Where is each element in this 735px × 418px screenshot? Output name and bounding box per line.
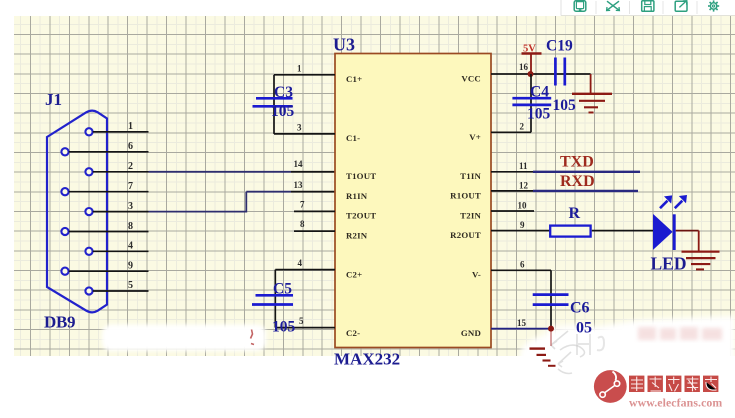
- svg-text:TXD: TXD: [560, 154, 594, 171]
- C19 value 105: [553, 97, 577, 114]
- capacitor C4: [512, 98, 551, 105]
- svg-text:5V: 5V: [523, 44, 536, 55]
- C6 value 05: [576, 320, 592, 337]
- ground symbol right of C19: [572, 94, 612, 113]
- svg-text:9: 9: [128, 261, 133, 272]
- svg-text:R2OUT: R2OUT: [450, 230, 481, 240]
- C3 value 105: [271, 103, 295, 120]
- TXD label: [560, 154, 594, 171]
- svg-text:4: 4: [298, 258, 303, 268]
- svg-text:MAX232: MAX232: [334, 350, 400, 369]
- pin13 number: [294, 180, 304, 190]
- svg-text:1: 1: [297, 64, 302, 74]
- J1 label: [45, 90, 62, 109]
- svg-text:C2-: C2-: [346, 328, 360, 338]
- svg-text:105: 105: [272, 319, 296, 336]
- svg-text:T1IN: T1IN: [460, 171, 481, 181]
- svg-text:105: 105: [553, 97, 577, 114]
- svg-text:5: 5: [128, 280, 133, 291]
- svg-text:3: 3: [128, 201, 133, 212]
- svg-text:GND: GND: [461, 328, 481, 338]
- svg-text:9: 9: [520, 220, 525, 230]
- J1 pin 4: [85, 248, 92, 255]
- svg-text:2: 2: [520, 122, 525, 132]
- J1 pin 3: [85, 208, 92, 215]
- wire U3 pin8 stub: [294, 219, 335, 231]
- svg-text:VCC: VCC: [461, 73, 481, 83]
- svg-text:12: 12: [519, 180, 529, 190]
- C5 value 105: [272, 319, 296, 336]
- svg-text:11: 11: [519, 161, 528, 171]
- wire GND pin15: [491, 318, 551, 329]
- pin14 number: [294, 159, 304, 169]
- C3 label: [274, 84, 293, 101]
- capacitor C3: [253, 98, 293, 106]
- svg-text:DB9: DB9: [44, 313, 75, 332]
- wire U3 pin3: [274, 123, 335, 134]
- C5 vertical wire: [274, 270, 276, 328]
- svg-text:C4: C4: [530, 84, 549, 101]
- wire R1OUT pin12 stub: [491, 180, 533, 191]
- svg-text:U3: U3: [333, 35, 355, 55]
- wire U3 pin1: [274, 64, 335, 75]
- svg-text:C3: C3: [274, 84, 293, 101]
- svg-text:6: 6: [128, 141, 133, 152]
- svg-text:105: 105: [271, 103, 295, 120]
- wire T1IN pin11 stub: [491, 161, 533, 172]
- svg-text:105: 105: [527, 106, 551, 123]
- svg-text:R1IN: R1IN: [346, 191, 368, 201]
- U3 pin names left: [346, 74, 376, 338]
- svg-text:RXD: RXD: [560, 173, 595, 190]
- svg-text:R2IN: R2IN: [346, 230, 368, 240]
- RXD label: [560, 173, 595, 190]
- wire R to LED: [592, 230, 654, 232]
- net RXD wire: [533, 190, 638, 192]
- C4 label: [530, 84, 549, 101]
- wire VCC pin16: [491, 62, 591, 74]
- wire pin3: [93, 201, 247, 212]
- C4 vertical wire: [530, 74, 532, 132]
- wire U3 pin4: [275, 258, 335, 270]
- wire pin5: [93, 280, 149, 291]
- LED D1: [653, 214, 674, 250]
- J1 pin 1: [85, 128, 92, 135]
- LED arrows: [660, 195, 687, 208]
- C4 value 105: [527, 106, 551, 123]
- wire pin3 vertical jog: [245, 192, 247, 213]
- svg-text:05: 05: [576, 320, 592, 337]
- svg-text:15: 15: [517, 318, 527, 328]
- svg-text:8: 8: [128, 221, 133, 232]
- capacitor C19: [555, 58, 564, 86]
- wire pin7: [69, 181, 149, 192]
- node GND junction: [548, 326, 554, 332]
- svg-text:R: R: [569, 205, 581, 222]
- J1 pin 5: [85, 287, 92, 294]
- connector J1 DB9 outline: [47, 111, 107, 313]
- C6 vertical wire: [550, 270, 552, 328]
- wire LED cathode: [676, 230, 699, 232]
- wire pin9: [69, 261, 149, 272]
- svg-text:T1OUT: T1OUT: [346, 171, 376, 181]
- svg-text:4: 4: [128, 241, 133, 252]
- wire pin2 to T1OUT: [93, 161, 335, 172]
- svg-text:C1-: C1-: [346, 133, 360, 143]
- svg-text:C5: C5: [273, 281, 292, 298]
- wire U3 pin5: [275, 316, 335, 328]
- svg-text:V+: V+: [469, 132, 481, 142]
- svg-text:2: 2: [128, 161, 133, 172]
- svg-text:10: 10: [518, 201, 528, 211]
- wire pin8: [69, 221, 149, 232]
- svg-text:R1OUT: R1OUT: [450, 191, 481, 201]
- J1 pin 2: [85, 168, 92, 175]
- C5 label: [273, 281, 292, 298]
- MAX232 label: [334, 350, 400, 369]
- U3 label: [333, 35, 355, 55]
- wire to R1IN: [246, 191, 335, 193]
- node VCC junction: [528, 71, 534, 77]
- svg-text:3: 3: [297, 123, 302, 133]
- wire LED to ground: [698, 231, 700, 252]
- J1 pin 8: [61, 228, 68, 235]
- svg-text:C2+: C2+: [346, 270, 362, 280]
- svg-text:T2OUT: T2OUT: [346, 211, 376, 221]
- capacitor C6: [533, 295, 569, 305]
- svg-text:13: 13: [294, 180, 304, 190]
- C3 vertical wire: [273, 75, 275, 134]
- wire V+ pin2: [491, 122, 531, 133]
- svg-text:C6: C6: [570, 300, 590, 317]
- wire R2OUT pin9: [491, 220, 550, 230]
- svg-text:7: 7: [300, 200, 305, 210]
- svg-text:16: 16: [519, 62, 529, 72]
- C19 label: [546, 38, 573, 55]
- svg-text:7: 7: [128, 181, 133, 192]
- svg-text:V-: V-: [472, 270, 481, 280]
- op-amp U3 MAX232 body: [335, 54, 491, 348]
- wire pin4: [93, 241, 149, 252]
- DB9 label: [44, 313, 75, 332]
- svg-text:LED: LED: [651, 254, 687, 274]
- svg-text:8: 8: [300, 219, 305, 229]
- stray mark red tick: [251, 330, 255, 345]
- svg-text:14: 14: [294, 159, 304, 169]
- J1 pin 6: [61, 148, 68, 155]
- wire VCC to ground: [590, 74, 592, 94]
- U3 pin names right: [450, 73, 481, 338]
- J1 pin 9: [61, 268, 68, 275]
- power 5V symbol: [522, 44, 542, 75]
- ground symbol at GND smudged: [530, 349, 556, 366]
- wire GND to ground faint: [550, 331, 552, 346]
- wire U3 pin7 stub: [294, 200, 335, 212]
- C6 label: [570, 300, 590, 317]
- wire pin1: [93, 121, 149, 132]
- R label: [569, 205, 581, 222]
- svg-text:C1+: C1+: [346, 74, 362, 84]
- capacitor C5: [252, 295, 293, 304]
- wire T2IN pin10 stub: [491, 201, 534, 211]
- net TXD wire: [533, 171, 640, 173]
- J1 pin 7: [61, 188, 68, 195]
- svg-text:J1: J1: [45, 90, 62, 109]
- LED label: [651, 254, 687, 274]
- resistor R: [550, 226, 590, 237]
- svg-text:6: 6: [520, 260, 525, 270]
- ground symbol at LED: [682, 252, 720, 270]
- wire pin6: [69, 141, 149, 152]
- wire V- pin6: [491, 260, 551, 271]
- svg-text:C19: C19: [546, 38, 573, 55]
- svg-text:T2IN: T2IN: [460, 210, 481, 220]
- svg-text:5: 5: [299, 316, 304, 326]
- svg-text:1: 1: [128, 121, 133, 132]
